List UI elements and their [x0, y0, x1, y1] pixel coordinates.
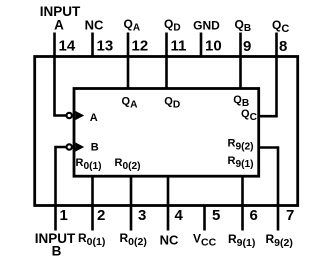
svg-text:4: 4: [175, 207, 184, 224]
input A bubble: [67, 113, 72, 118]
svg-text:B: B: [52, 244, 62, 259]
pin 3 wire (R0(2)): [130, 177, 133, 231]
svg-text:9: 9: [243, 38, 251, 55]
svg-text:1: 1: [60, 207, 68, 224]
input B bubble: [67, 144, 72, 149]
svg-text:QD: QD: [164, 96, 180, 111]
pin 1 wire (INPUT B): [56, 147, 67, 231]
pin 8 wire (QC): [259, 33, 277, 117]
svg-text:3: 3: [138, 207, 146, 224]
svg-text:QB: QB: [233, 94, 249, 109]
svg-text:6: 6: [250, 207, 258, 224]
input B edge triangle: [75, 142, 84, 151]
input A edge triangle: [75, 111, 84, 120]
svg-text:A: A: [90, 112, 98, 124]
pin 14 wire (INPUT A): [55, 33, 67, 116]
pin 7 wire (R9(2)): [259, 148, 278, 231]
pin 9 wire (QB): [239, 33, 242, 89]
svg-text:VCC: VCC: [193, 232, 217, 249]
pin 13 stub (NC): [91, 33, 94, 57]
svg-text:7: 7: [286, 207, 294, 224]
svg-text:R0(1): R0(1): [76, 157, 102, 172]
svg-text:R0(2): R0(2): [115, 157, 141, 172]
pin 5 stub (VCC): [203, 206, 206, 231]
svg-text:QC: QC: [241, 108, 258, 123]
svg-text:QA: QA: [124, 17, 141, 34]
svg-text:13: 13: [97, 38, 114, 55]
pin 12 wire (QA): [127, 33, 130, 89]
svg-text:R9(1): R9(1): [228, 232, 255, 249]
svg-text:R0(1): R0(1): [78, 231, 105, 248]
svg-text:14: 14: [59, 38, 76, 55]
svg-text:R0(2): R0(2): [120, 231, 147, 248]
pin 6 wire (R9(1)): [241, 177, 244, 231]
svg-text:QD: QD: [164, 17, 181, 34]
svg-text:NC: NC: [85, 18, 104, 33]
pin 2 wire (R0(1)): [91, 177, 94, 231]
svg-text:QB: QB: [235, 18, 252, 35]
pin 4 wire (NC): [167, 177, 170, 231]
logic block U1: [74, 89, 259, 177]
svg-text:R9(2): R9(2): [228, 138, 254, 153]
svg-text:A: A: [54, 18, 64, 33]
svg-text:B: B: [91, 142, 99, 154]
svg-text:2: 2: [97, 207, 105, 224]
svg-text:NC: NC: [160, 233, 179, 248]
svg-text:QC: QC: [272, 18, 289, 35]
package outline: [35, 57, 298, 206]
svg-text:R9(2): R9(2): [266, 232, 293, 249]
svg-text:QA: QA: [122, 96, 139, 111]
svg-text:11: 11: [171, 38, 187, 55]
pin 10 stub (GND): [200, 33, 203, 57]
pin 11 wire (QD): [165, 33, 168, 89]
svg-text:12: 12: [132, 38, 149, 55]
svg-text:5: 5: [212, 207, 220, 224]
svg-text:10: 10: [205, 38, 222, 55]
svg-text:GND: GND: [193, 19, 220, 33]
svg-text:R9(1): R9(1): [228, 155, 254, 170]
svg-text:8: 8: [279, 38, 287, 55]
